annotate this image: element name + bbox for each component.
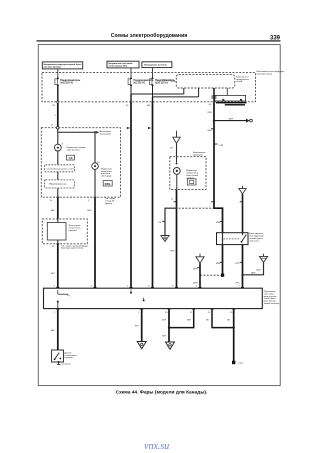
fuse F2 xyxy=(128,73,154,87)
node: branch junction xyxy=(94,131,96,133)
svg-text:Напряжение аккумуляторной бата: Напряжение аккумуляторной бата- xyxy=(44,63,82,66)
lamp: brake system indicator xyxy=(54,144,63,151)
headlight relay block (inner dashed) xyxy=(176,75,235,88)
svg-text:БЕЛ: БЕЛ xyxy=(87,210,92,212)
connector tick with pin xyxy=(214,144,224,147)
wire label KRS xyxy=(236,262,243,265)
svg-text:Схемы электрооборудования: Схемы электрооборудования xyxy=(111,32,188,39)
switch internal contact mid xyxy=(130,290,145,302)
svg-text:ЧРН: ЧРН xyxy=(193,269,198,271)
node: unit exit 16 xyxy=(52,243,89,249)
header rule xyxy=(37,40,281,41)
instrument cluster box (dashed) xyxy=(41,128,120,198)
svg-text:С721: С721 xyxy=(238,363,244,365)
svg-text:Сигнализатор дальн. света: Сигнализатор дальн. света xyxy=(47,168,75,170)
relay pin wire to fuse F2 xyxy=(131,85,184,94)
svg-text:Напряжение питания: Напряжение питания xyxy=(144,65,168,67)
relay pin wire to connector strip xyxy=(226,88,228,95)
label box: headlight feed xyxy=(142,62,172,68)
svg-text:ной системы: ной системы xyxy=(67,148,80,151)
wire: switch to ground G551 xyxy=(141,310,143,342)
dashed link to switch feed xyxy=(200,274,221,276)
wire stub from box3 xyxy=(152,68,154,73)
svg-text:ЗЕЛ: ЗЕЛ xyxy=(170,251,175,253)
svg-text:ЗЕЛ: ЗЕЛ xyxy=(51,330,56,332)
svg-text:нителей и реле: нителей и реле xyxy=(257,73,273,76)
label box: ignition feed xyxy=(107,61,139,68)
ground stub above photo sensor xyxy=(176,131,178,137)
ground triangle (sensor) xyxy=(173,137,180,143)
box: high beam telltale (dashed) xyxy=(44,165,75,172)
svg-text:ЧРН: ЧРН xyxy=(216,222,221,224)
wire: lamp to high-beam telltale box xyxy=(57,151,59,165)
wire: branch to DRL indicator xyxy=(58,131,95,133)
ground triangle (switch) xyxy=(166,342,175,349)
ground G401 link elbow xyxy=(243,262,264,275)
ground triangle feeding relay xyxy=(239,186,246,194)
wire: cluster to lighting control unit xyxy=(57,198,59,219)
svg-text:гании (замок IG1): гании (замок IG1) xyxy=(108,66,127,68)
label: relay name (left of inner box) xyxy=(163,79,177,82)
note text: see scheme xyxy=(105,198,116,205)
wire: triangle to relay xyxy=(242,194,244,233)
label above sensor box xyxy=(193,152,206,156)
wire: fuse F1 to box edge xyxy=(57,85,59,101)
label inside fuse box right xyxy=(236,76,249,83)
ground drop wire xyxy=(165,208,177,235)
svg-text:приборов: приборов xyxy=(193,155,204,157)
svg-text:ЗЕЛ: ЗЕЛ xyxy=(51,273,56,275)
wire stub from box1 xyxy=(57,69,59,73)
svg-text:освещения: освещения xyxy=(100,134,112,136)
link wire from pin 12 xyxy=(169,310,194,328)
svg-text:ЧРН: ЧРН xyxy=(207,130,212,132)
svg-text:(см. вид крышки): (см. вид крышки) xyxy=(225,104,242,106)
svg-text:G401: G401 xyxy=(256,270,262,272)
terminal square end xyxy=(221,274,224,277)
switch top pins xyxy=(54,285,244,288)
svg-text:света фар: света фар xyxy=(101,175,112,178)
wire: sensor to switch xyxy=(176,190,178,289)
switch internal lever left xyxy=(57,290,72,308)
wire xyxy=(57,172,59,180)
wire label CHRN low xyxy=(216,262,223,265)
lighting control unit (dashed) xyxy=(42,219,87,244)
terminal mark in strip xyxy=(240,99,242,101)
svg-text:DRL: DRL xyxy=(105,182,111,186)
wire into sensor box xyxy=(176,143,178,156)
wire: fuse 3 feed to switch xyxy=(152,102,154,288)
fuse/relay box (dashed) xyxy=(42,73,256,102)
icon box in sensor xyxy=(187,179,196,185)
node: ground branch xyxy=(213,120,215,122)
parking brake switch box xyxy=(52,350,64,363)
relay output pin wire xyxy=(213,88,215,103)
ground G402 triangle xyxy=(161,236,169,242)
wire: fuse F2 segment xyxy=(130,94,132,102)
label: high beam indicator xyxy=(101,168,113,177)
terminal square end xyxy=(232,361,244,365)
wire stub from box2 xyxy=(130,68,132,73)
connector strip box xyxy=(215,95,246,101)
control unit inner box xyxy=(47,219,66,244)
label: fuse box name (right, outside) xyxy=(257,70,285,75)
combination light switch box xyxy=(44,288,263,308)
wire: pin13 down to connector xyxy=(233,310,235,363)
wire xyxy=(57,188,59,197)
arrow: to lighting circuit xyxy=(96,131,99,134)
wire: down to high beam indicator xyxy=(94,132,96,163)
wire: down to brake indicator lamp xyxy=(57,129,59,144)
svg-text:на массу: на массу xyxy=(61,364,71,366)
svg-text:ЧРН: ЧРН xyxy=(207,112,212,114)
wire label PB xyxy=(158,221,165,224)
switch bottom pins xyxy=(54,309,235,314)
sensor lamp symbol xyxy=(173,157,182,190)
label box: battery feed xyxy=(42,62,82,69)
connector tick xyxy=(211,200,214,203)
svg-text:1 ПВ: 1 ПВ xyxy=(218,145,223,147)
node: link join xyxy=(168,327,170,329)
wire: high beam indicator to switch xyxy=(94,198,96,289)
connector tick xyxy=(171,199,177,203)
wire xyxy=(94,169,96,197)
wire: fuse F3 segment xyxy=(152,97,154,102)
relay pin wire to fuse F3 xyxy=(153,85,199,97)
svg-text:проверка цепи блока): проверка цепи блока) xyxy=(61,248,83,250)
label: control unit xyxy=(69,225,81,232)
svg-text:ЧРН: ЧРН xyxy=(229,118,234,120)
label in sensor box xyxy=(186,170,199,179)
svg-text:№13 (10 А): №13 (10 А) xyxy=(60,82,73,85)
svg-text:ЧРН: ЧРН xyxy=(251,273,256,275)
svg-text:тормоза: тормоза xyxy=(64,357,73,359)
svg-text:Схема 44. Фары (модели для Кан: Схема 44. Фары (модели для Канады). xyxy=(116,390,208,396)
wire: battery feed down to cluster xyxy=(57,103,59,126)
fuse F3 xyxy=(150,73,176,87)
wire label CHRN xyxy=(216,221,223,224)
dashed link wire at y208 xyxy=(165,207,214,209)
svg-text:ЗЕЛ: ЗЕЛ xyxy=(162,319,167,321)
svg-text:ЗЕЛ: ЗЕЛ xyxy=(162,336,167,338)
wire: switch to park brake switch xyxy=(57,310,59,350)
connector tick xyxy=(207,128,214,132)
connector tick xyxy=(240,200,243,203)
svg-text:ЧРН: ЧРН xyxy=(193,282,198,284)
icon box C3 xyxy=(67,155,75,160)
svg-text:ЧРН: ЧРН xyxy=(216,263,221,265)
main feed wire from fuse box (right) xyxy=(214,103,223,233)
wire: switch to ground (dimmer) xyxy=(168,310,170,342)
bold bus bar under strip xyxy=(216,102,247,104)
node: ground join xyxy=(241,274,243,276)
svg-text:ЗЕЛ: ЗЕЛ xyxy=(187,319,192,321)
svg-text:Микропроцессор: Микропроцессор xyxy=(49,184,67,186)
in-line connector on relay output xyxy=(211,96,216,99)
fuse F1 xyxy=(55,73,81,87)
wire label CHRN xyxy=(193,267,200,270)
ground G401 triangle xyxy=(256,254,268,272)
svg-text:реи (все время): реи (все время) xyxy=(44,66,61,68)
node: cluster exit 4 xyxy=(88,197,97,202)
svg-text:C3: C3 xyxy=(69,156,73,160)
node: cluster exit 14 xyxy=(50,197,60,202)
label: brake indicator xyxy=(67,147,87,151)
svg-text:КРС: КРС xyxy=(236,263,241,265)
box: microprocessor (dashed) xyxy=(44,180,74,188)
wire: fuse 2 feed to switch xyxy=(130,102,132,288)
svg-text:КРС: КРС xyxy=(236,283,241,285)
icon box DRL xyxy=(103,181,112,186)
svg-text:щением: щением xyxy=(69,230,78,232)
svg-text:КРС: КРС xyxy=(135,325,140,327)
terminal mark in strip xyxy=(222,99,224,101)
wire: ground to switch xyxy=(199,263,201,288)
node: cluster entry junction 13 xyxy=(57,126,60,129)
connector arrow on wire xyxy=(127,127,130,129)
label: DRL unit xyxy=(249,233,264,242)
label: park brake switch xyxy=(64,352,77,359)
ground arrow symbol xyxy=(229,118,253,122)
connector arrow on wire xyxy=(148,127,151,129)
photo sensor box (dashed) xyxy=(170,157,206,190)
ground triangle mid xyxy=(196,254,204,263)
lamp: high beam indicator xyxy=(92,162,101,169)
bold bus bar 2 xyxy=(225,104,245,105)
node: join xyxy=(233,327,235,329)
label: light switch xyxy=(264,291,280,305)
ground stub under park brake switch xyxy=(57,362,72,366)
wire to body ground xyxy=(214,120,246,122)
svg-text:vnx.su: vnx.su xyxy=(144,441,169,452)
svg-text:№2 (15 А): №2 (15 А) xyxy=(134,82,146,85)
svg-text:ЗЕЛ: ЗЕЛ xyxy=(51,210,56,212)
svg-text:Реле фар: Реле фар xyxy=(163,79,174,82)
svg-text:левой колонке): левой колонке) xyxy=(264,302,280,305)
svg-text:№21 (15 А): №21 (15 А) xyxy=(155,82,168,85)
wire: control unit to light switch xyxy=(57,244,59,288)
link wire pin 11 to pin 13 xyxy=(212,310,234,328)
DRL control unit (relay) xyxy=(217,233,249,245)
wire: relay out left xyxy=(222,245,224,275)
node: fuse box exit junction (left wire) xyxy=(57,101,59,103)
svg-text:ной свет): ной свет) xyxy=(249,239,259,242)
schematic border frame xyxy=(38,45,280,386)
svg-text:телей: телей xyxy=(236,80,243,83)
svg-text:(фары): (фары) xyxy=(105,202,113,205)
wire: relay out right xyxy=(242,245,244,289)
ground triangle G551 xyxy=(137,342,146,349)
